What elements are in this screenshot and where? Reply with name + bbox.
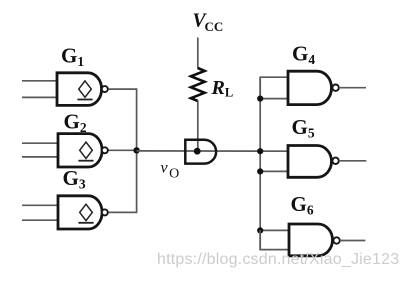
gate G5 body [288, 146, 332, 178]
open-collector symbol G1 [77, 81, 92, 100]
bubble G2 [102, 147, 108, 153]
wire G3 input A [22, 204, 58, 206]
node G4 bottom input [257, 96, 263, 102]
gate G6 body [289, 224, 333, 256]
resistor RL [191, 68, 205, 101]
bubble G3 [102, 209, 108, 215]
wire G2 output to junction [108, 149, 137, 151]
wire G4 output [339, 87, 366, 89]
wire G3 input B [22, 219, 58, 221]
wire G5 bottom input [260, 170, 288, 172]
open-collector symbol G3 [78, 204, 93, 223]
wire VCC lead [197, 38, 199, 69]
wire G6 bottom input [260, 230, 289, 249]
svg-text:G1: G1 [61, 44, 84, 70]
wire G2 input A [22, 142, 58, 144]
wire G5 output [339, 160, 366, 162]
gate G3 body [58, 196, 102, 229]
wire G1 input B [22, 96, 57, 98]
bubble G4 [332, 85, 338, 91]
node G5 top input [257, 148, 263, 154]
wire G4 bottom input [260, 98, 288, 100]
node vO wired-AND dot [194, 148, 201, 155]
wire resistor to wired-AND node [197, 101, 199, 152]
wire G1 output to junction column [108, 89, 137, 150]
gate G1 body [57, 73, 102, 106]
bubble G6 [333, 237, 339, 243]
svg-text:G3: G3 [63, 166, 86, 192]
wire G4 top input [260, 77, 288, 98]
gate G4 body [288, 71, 332, 104]
svg-text:RL: RL [211, 77, 234, 100]
svg-text:https://blog.csdn.net/Xiao_Jie: https://blog.csdn.net/Xiao_Jie123 [157, 251, 399, 268]
svg-text:G4: G4 [292, 42, 315, 68]
wire G6 output [340, 240, 366, 242]
wire G3 output to junction column [108, 150, 137, 212]
wire G2 input B [22, 156, 58, 158]
node G6 top input [257, 227, 263, 233]
node G5 bottom input [257, 168, 263, 174]
node junction of G1 G2 G3 outputs [133, 147, 139, 153]
svg-text:vO: vO [161, 160, 180, 182]
wired-AND symbol around node [185, 140, 216, 164]
wire right bus vertical [259, 77, 261, 249]
svg-text:VCC: VCC [193, 11, 224, 35]
svg-text:G5: G5 [292, 115, 315, 141]
gate G2 body [58, 134, 102, 167]
bubble G5 [332, 158, 338, 164]
svg-text:G2: G2 [64, 110, 87, 136]
svg-text:G6: G6 [291, 192, 314, 218]
wire G6 top input [260, 229, 289, 231]
wire main output bus vO [137, 150, 288, 152]
open-collector symbol G2 [78, 142, 93, 161]
wire G1 input A [22, 80, 57, 82]
bubble G1 [102, 86, 108, 92]
